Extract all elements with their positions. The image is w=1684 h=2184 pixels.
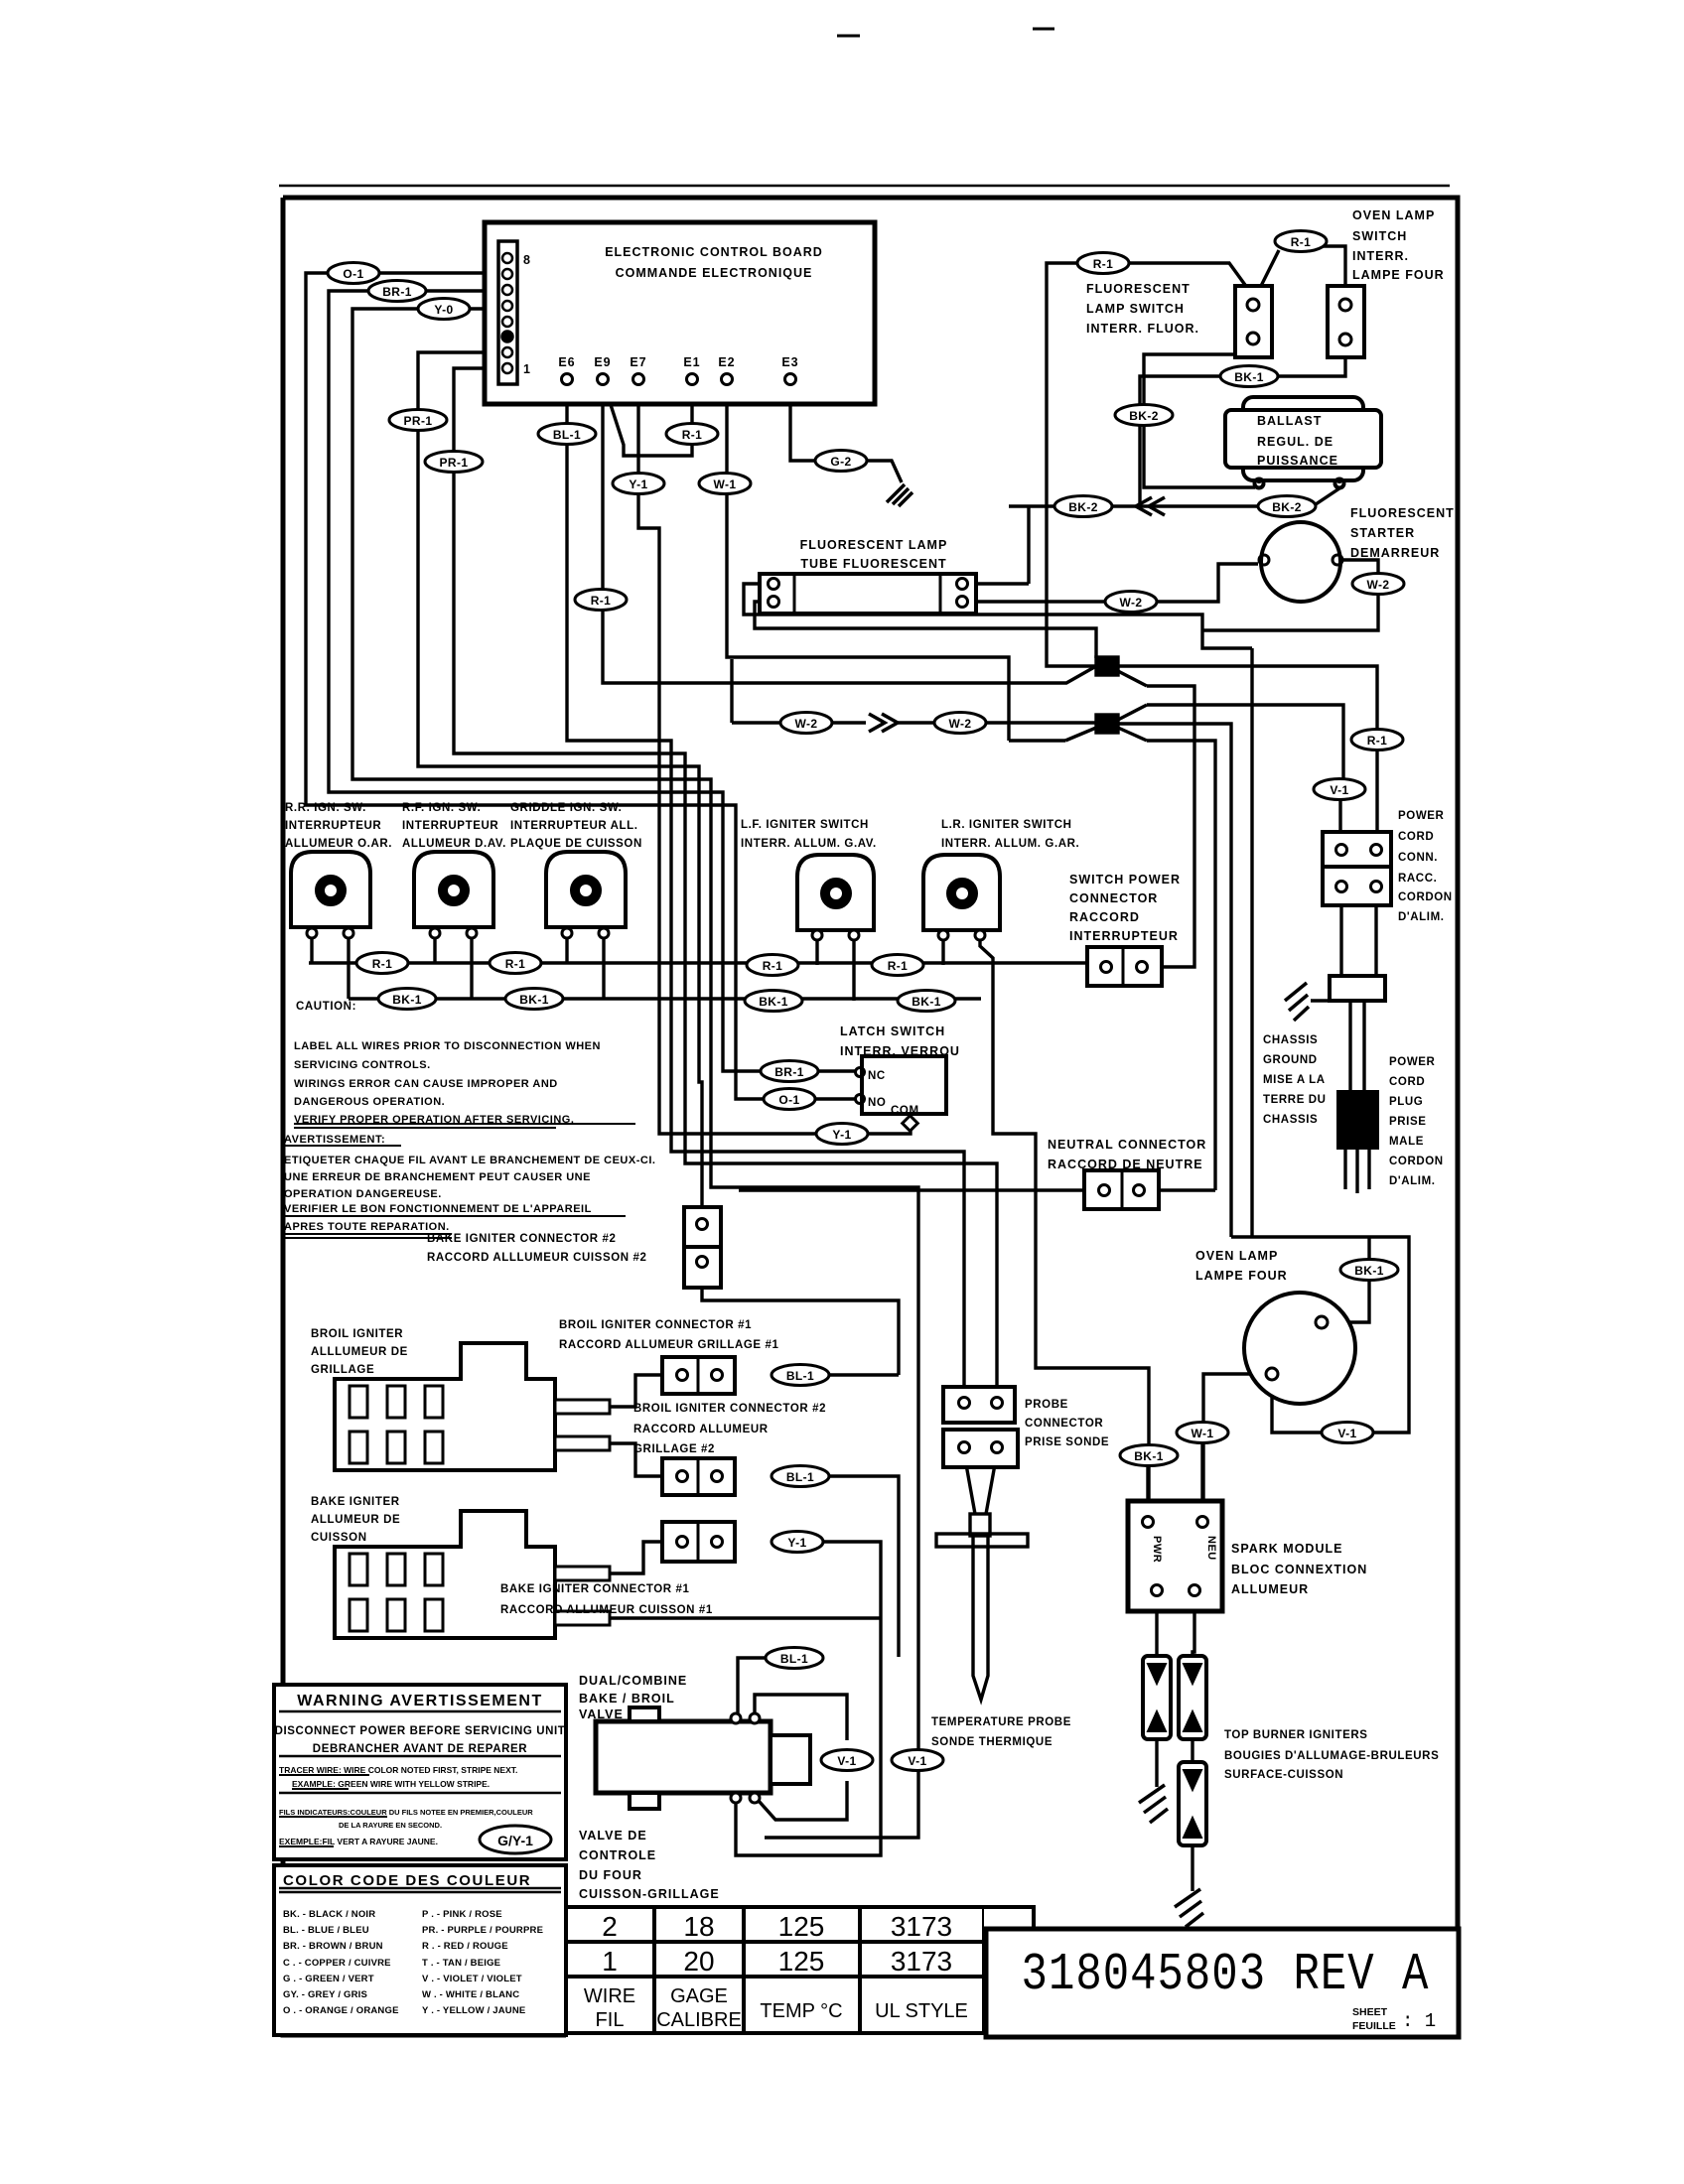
label R-1 top [1275,231,1327,252]
svg-text:BROIL IGNITER CONNECTOR #2: BROIL IGNITER CONNECTOR #2 [633,1403,826,1415]
svg-text:RACCORD DE NEUTRE: RACCORD DE NEUTRE [1048,1158,1203,1171]
svg-text:GAGE: GAGE [670,1985,728,2007]
probe plate [936,1534,1028,1547]
svg-text:PR-1: PR-1 [404,414,433,428]
fluorescent lamp switch [1235,286,1272,357]
svg-text:GRIDDLE IGN. SW.: GRIDDLE IGN. SW. [510,802,622,814]
label O-1 [328,263,379,284]
svg-text:R . - RED / ROUGE: R . - RED / ROUGE [422,1941,508,1952]
svg-text:R-1: R-1 [682,428,703,442]
svg-text:W-1: W-1 [1192,1427,1214,1440]
svg-text:GROUND: GROUND [1263,1054,1318,1066]
svg-text:PUISSANCE: PUISSANCE [1257,454,1338,468]
svg-text:Y-1: Y-1 [787,1536,806,1550]
svg-text:O . - ORANGE / ORANGE: O . - ORANGE / ORANGE [283,2005,399,2016]
svg-text:INTERRUPTEUR ALL.: INTERRUPTEUR ALL. [510,820,638,832]
underline marks in caution block [279,1124,635,1846]
latch COM diamond [903,1116,918,1132]
wire oven lamp loop top [1231,1237,1409,1433]
svg-text:L.R. IGNITER SWITCH: L.R. IGNITER SWITCH [941,819,1072,831]
svg-text:CONNECTOR: CONNECTOR [1025,1418,1103,1430]
svg-text:PLUG: PLUG [1389,1096,1423,1108]
label V-1 cord [1314,779,1365,800]
svg-text:DE LA RAYURE EN SECOND.: DE LA RAYURE EN SECOND. [339,1821,442,1830]
svg-text:DANGEROUS OPERATION.: DANGEROUS OPERATION. [294,1096,445,1108]
svg-text:Y . - YELLOW / JAUNE: Y . - YELLOW / JAUNE [422,2005,525,2016]
svg-text:LAMPE FOUR: LAMPE FOUR [1352,268,1445,282]
wire BR-1 to latch NC [815,1069,856,1072]
svg-text:VALVE: VALVE [579,1707,624,1721]
svg-text:DUAL/COMBINE: DUAL/COMBINE [579,1674,687,1688]
svg-text:FLUORESCENT: FLUORESCENT [1350,506,1455,520]
latch switch [862,1056,946,1114]
svg-text:ALLUMEUR D.AV.: ALLUMEUR D.AV. [402,838,506,850]
svg-text:MALE: MALE [1389,1136,1424,1148]
svg-text:SWITCH: SWITCH [1352,229,1407,243]
wire E7 Y-1 down to latch Y-1 oval row [638,384,816,1134]
wire fluor switch lower pin via BK-2 to ballast left pin [1144,343,1255,487]
label W-2 row a [780,713,832,734]
svg-text:E3: E3 [781,355,798,369]
svg-text:DEBRANCHER AVANT DE REPARER: DEBRANCHER AVANT DE REPARER [313,1743,527,1755]
connector strip pins [502,253,513,373]
warning box [274,1685,566,1859]
svg-text:TUBE FLUORESCENT: TUBE FLUORESCENT [800,557,946,571]
strain relief [1330,976,1385,1001]
svg-text:SWITCH POWER: SWITCH POWER [1069,873,1181,887]
svg-text:CHASSIS: CHASSIS [1263,1034,1318,1046]
svg-text:BALLAST: BALLAST [1257,414,1322,428]
svg-text:CAUTION:: CAUTION: [296,1001,356,1013]
label Y-1 latch [816,1124,868,1145]
label BK-1 row4 [898,991,955,1012]
svg-text:PRISE: PRISE [1389,1116,1427,1128]
svg-text:T . - TAN / BEIGE: T . - TAN / BEIGE [422,1958,500,1969]
svg-text:VALVE DE: VALVE DE [579,1829,647,1843]
igniter switch griddle [546,852,626,938]
label V-1 lamp [1322,1423,1373,1443]
bake igniter comb [335,1511,555,1638]
wire plug prongs [1345,1148,1369,1193]
svg-text:INTERR. FLUOR.: INTERR. FLUOR. [1086,322,1199,336]
wire R-1 igniter row [309,961,1087,964]
svg-text:WIRE: WIRE [584,1985,635,2007]
svg-text:R-1: R-1 [888,959,909,973]
svg-text:TRACER WIRE: WIRE COLOR NOTED: TRACER WIRE: WIRE COLOR NOTED FIRST, STR… [279,1765,517,1775]
wire ballast right pin via BK-2 row to tube riser [1009,488,1339,584]
svg-text:PRISE SONDE: PRISE SONDE [1025,1436,1109,1448]
svg-text:Y-1: Y-1 [832,1128,851,1142]
igniter switch R.R. [291,852,370,938]
ground G-2 symbol [887,484,912,506]
svg-text:BK-1: BK-1 [912,995,941,1009]
svg-text:125: 125 [778,1946,825,1977]
svg-text:BK-1: BK-1 [519,993,549,1007]
wire R-1 fluor switch feed up right [1047,263,1253,666]
label R-1 row2 [490,953,541,974]
svg-text:TERRE DU: TERRE DU [1263,1094,1327,1106]
svg-text:DU FOUR: DU FOUR [579,1868,642,1882]
svg-text:D'ALIM.: D'ALIM. [1389,1175,1436,1187]
svg-text:E1: E1 [683,355,700,369]
svg-text:RACCORD ALLUMEUR: RACCORD ALLUMEUR [633,1424,769,1435]
label W-2 tube [1105,592,1157,613]
svg-text:ALLLUMEUR DE: ALLLUMEUR DE [311,1346,408,1358]
svg-text:V-1: V-1 [1337,1427,1356,1440]
svg-text:E9: E9 [594,355,611,369]
svg-text:BR. - BROWN / BRUN: BR. - BROWN / BRUN [283,1941,383,1952]
color code box [274,1865,566,2035]
label BK-1 row2 [505,989,563,1010]
wire chassis ground link [1311,999,1330,1002]
wire Y-0 from control board pin down left bus to valve V-1 riser [352,309,918,1838]
wire spark module to igniters [1157,1595,1194,1656]
svg-text:BK-1: BK-1 [1134,1449,1164,1463]
svg-text:3173: 3173 [891,1946,952,1977]
svg-text:COMMANDE ELECTRONIQUE: COMMANDE ELECTRONIQUE [616,266,813,280]
svg-text:NEUTRAL CONNECTOR: NEUTRAL CONNECTOR [1048,1138,1206,1152]
svg-text:RACCORD ALLLUMEUR CUISSON #2: RACCORD ALLLUMEUR CUISSON #2 [427,1252,646,1264]
svg-text:BLOC CONNEXTION: BLOC CONNEXTION [1231,1563,1367,1576]
svg-text:8: 8 [523,253,531,267]
svg-text:PWR: PWR [1151,1536,1163,1563]
wire square2 NE branch to V-1 and power cord conn [1147,705,1343,845]
wire igniter B to C [1191,1739,1193,1762]
svg-text:ELECTRONIC CONTROL BOARD: ELECTRONIC CONTROL BOARD [605,245,823,259]
svg-text:BOUGIES D'ALLUMAGE-BRULEURS: BOUGIES D'ALLUMAGE-BRULEURS [1224,1750,1439,1762]
wire bake comb lower stub [610,1616,881,1619]
bottom table [566,1907,1034,2033]
svg-text:INTERR. ALLUM. G.AV.: INTERR. ALLUM. G.AV. [741,838,877,850]
svg-text:PLAQUE DE CUISSON: PLAQUE DE CUISSON [510,838,642,850]
svg-text:FLUORESCENT LAMP: FLUORESCENT LAMP [800,538,948,552]
junction square 2 [1096,715,1118,733]
svg-text:E7: E7 [630,355,646,369]
wire valve top loop [755,1695,847,1820]
arrows W-2 row [869,714,898,732]
label R-1 row4 [872,955,923,976]
wire E9 branch down through R-1 oval to junction square 1 [603,384,1096,683]
svg-text:FIL: FIL [596,2009,625,2031]
svg-text:18: 18 [683,1911,714,1942]
svg-text:INTERR. VERROU: INTERR. VERROU [840,1044,960,1058]
svg-text:R-1: R-1 [591,594,612,608]
svg-text:NC: NC [868,1070,886,1082]
svg-text:ALLUMEUR DE: ALLUMEUR DE [311,1514,400,1526]
svg-text:2: 2 [602,1911,618,1942]
wire W-2 row into square2 [732,721,1096,724]
bake igniter connector 2 [684,1207,721,1247]
wire BK-1 igniter row [349,997,981,1000]
wire O-1 to latch NO [815,1097,856,1100]
neutral connector [1084,1170,1159,1209]
label PR-1 b [425,452,483,473]
svg-text:OVEN LAMP: OVEN LAMP [1195,1249,1278,1263]
wire PR-1 first from connector pin down to bake igniter connector 2 [418,352,702,1207]
svg-text:SHEET: SHEET [1352,2006,1388,2018]
wire E9 diagonal to E1 node [604,383,692,456]
igniter switch L.F. [797,855,874,940]
wire square2 SE branch rail [1118,724,1231,1237]
pin E1 [687,374,698,385]
wire power cord conn to strain relief [1341,891,1376,976]
wire BL-1 broil conn1 [610,1375,899,1407]
svg-text:OPERATION DANGEREUSE.: OPERATION DANGEREUSE. [284,1188,442,1200]
wire E6 BL-1 down bus to probe connector [567,384,964,1393]
svg-text:R-1: R-1 [1367,734,1388,748]
border frame outer thin top line [279,185,1450,188]
svg-text:COLOR CODE DES COULEUR: COLOR CODE DES COULEUR [283,1872,531,1889]
svg-text:BAKE IGNITER CONNECTOR #1: BAKE IGNITER CONNECTOR #1 [500,1583,690,1595]
wire tube top-left loop to under-tube rail [744,584,1252,1237]
svg-text:RACCORD ALLUMEUR CUISSON #1: RACCORD ALLUMEUR CUISSON #1 [500,1604,713,1616]
ballast regulator [1225,397,1381,488]
svg-text:O-1: O-1 [778,1093,799,1107]
svg-text:V-1: V-1 [1330,783,1348,797]
bake igniter connector 1 [662,1522,735,1562]
svg-text:UNE ERREUR DE BRANCHEMENT PEUT: UNE ERREUR DE BRANCHEMENT PEUT CAUSER UN… [284,1171,591,1183]
svg-text:O-1: O-1 [343,267,363,281]
svg-text:CALIBRE: CALIBRE [656,2009,742,2031]
wire latch COM to Y-1 [868,1128,911,1134]
svg-text:BL-1: BL-1 [553,428,581,442]
svg-text:SERVICING CONTROLS.: SERVICING CONTROLS. [294,1059,431,1071]
ground symbol igniter A [1139,1785,1168,1823]
top burner igniter C [1179,1762,1206,1845]
label Y-1 bake [772,1532,823,1553]
svg-text:EXAMPLE: GREEN WIRE WITH YELLO: EXAMPLE: GREEN WIRE WITH YELLOW STRIPE. [292,1779,490,1789]
wire oven lamp BK-1 drop [1328,1237,1369,1322]
table text [602,1911,952,1977]
broil igniter comb [335,1343,555,1470]
label R-1 row3 [747,955,798,976]
svg-text:20: 20 [683,1946,714,1977]
wire BK-2 left riser long run to spark BK-1 riser [980,940,1149,1517]
wire square1 right to R-1 and power cord conn [1118,666,1377,845]
wire valve BL-1 left [738,1658,769,1713]
svg-text:W-2: W-2 [949,717,972,731]
electronic control board [485,222,875,404]
label BK-1 sw [1220,366,1278,387]
bake comb lead stubs [555,1567,610,1580]
svg-text:REGUL. DE: REGUL. DE [1257,435,1333,449]
label W-1 e2 [699,474,751,494]
svg-text:ALLUMEUR: ALLUMEUR [1231,1582,1309,1596]
wire bake conn2 lower to BL-1 chain [702,1242,899,1375]
svg-text:P . - PINK / ROSE: P . - PINK / ROSE [422,1909,502,1920]
svg-text:BK-2: BK-2 [1129,409,1159,423]
wire square1 SW feed from E9 rail [1009,739,1065,742]
oven lamp switch [1328,286,1364,357]
svg-text:R-1: R-1 [763,959,783,973]
top burner igniter A [1143,1656,1171,1739]
switch power connector [1087,947,1162,986]
junction square 1 [1096,657,1118,675]
pin E3 [785,374,796,385]
svg-text:R.F. IGN. SW.: R.F. IGN. SW. [402,802,481,814]
svg-text:125: 125 [778,1911,825,1942]
label G/Y-1 example [480,1826,551,1853]
svg-text:INTERR.: INTERR. [1352,249,1409,263]
wire neutral connector feed [739,1188,1215,1191]
svg-text:R-1: R-1 [1093,257,1114,271]
wire igniter switch left terminals to R-1 row [312,938,943,965]
svg-text:FEUILLE: FEUILLE [1352,2020,1396,2032]
junction square 2 diagonals [1065,705,1147,741]
svg-text:DISCONNECT POWER BEFORE SERVIC: DISCONNECT POWER BEFORE SERVICING UNIT [275,1725,566,1737]
label BL-1 broil1 [772,1365,829,1386]
pin E6 [562,374,573,385]
fluorescent starter [1261,522,1340,602]
label PR-1 [389,410,447,431]
svg-text:GRILLAGE: GRILLAGE [311,1364,374,1376]
svg-text:MISE A LA: MISE A LA [1263,1074,1326,1086]
wire igniter switch right terminals to BK-1 row [349,938,854,1001]
svg-text:BK-2: BK-2 [1068,500,1098,514]
svg-text:VERIFIER LE BON FONCTIONNEMENT: VERIFIER LE BON FONCTIONNEMENT DE L'APPA… [284,1203,592,1215]
svg-text:FILS INDICATEURS:COULEUR DU FI: FILS INDICATEURS:COULEUR DU FILS NOTEE E… [279,1808,533,1817]
wire ballast pins stubs [1259,479,1339,483]
wire igniter C to ground [1191,1845,1193,1891]
valve top tab [630,1707,659,1721]
wire starter right pin through W-2 down to rail [1202,560,1378,630]
svg-text:CONTROLE: CONTROLE [579,1848,656,1862]
svg-text:INTERRUPTEUR: INTERRUPTEUR [402,820,498,832]
svg-text:DEMARREUR: DEMARREUR [1350,546,1440,560]
wire oven lamp switch lower pin to BK-1 and long riser to spark module PWR [1140,344,1345,506]
border frame [283,198,1458,2037]
label R-1 e1 [666,424,718,445]
svg-text:BAKE IGNITER: BAKE IGNITER [311,1496,400,1508]
junction square 1 diagonals [1118,671,1147,686]
svg-text:W-2: W-2 [1367,578,1390,592]
power cord plug [1338,1092,1377,1148]
wire square1 SE branch down to switch power connector [1147,686,1194,967]
wire temperature probe shaft [973,1536,988,1700]
svg-text:BL. - BLUE / BLEU: BL. - BLUE / BLEU [283,1925,369,1936]
label R-1 cord [1351,730,1403,751]
svg-text:BR-1: BR-1 [774,1065,804,1079]
probe connector upper [943,1387,1015,1423]
top burner igniter B [1179,1656,1206,1739]
svg-text:LATCH SWITCH: LATCH SWITCH [840,1024,945,1038]
svg-text:SONDE THERMIQUE: SONDE THERMIQUE [931,1736,1052,1748]
label Y-1 e7 [613,474,664,494]
pin E9 [598,374,609,385]
svg-text:W . - WHITE / BLANC: W . - WHITE / BLANC [422,1989,519,2000]
svg-text:PROBE: PROBE [1025,1399,1068,1411]
svg-text:BK-1: BK-1 [1234,370,1264,384]
svg-text:CONN.: CONN. [1398,852,1438,864]
svg-text:E2: E2 [718,355,735,369]
wire probe connector lower circles to probe [964,1453,997,1514]
wire E2 W-1 down and right to square2 riser [727,384,1009,741]
label R-1 fluor [1077,253,1129,274]
svg-text:L.F. IGNITER SWITCH: L.F. IGNITER SWITCH [741,819,869,831]
svg-text:TEMPERATURE PROBE: TEMPERATURE PROBE [931,1716,1071,1728]
svg-text:INTERRUPTEUR: INTERRUPTEUR [285,820,381,832]
svg-text:CORD: CORD [1389,1076,1425,1088]
label BL-1 valve [766,1648,823,1669]
svg-text:BL-1: BL-1 [786,1470,814,1484]
wire strain relief to plug [1350,1001,1364,1092]
wire BR-1 from control board pin down left bus to latch NC oval [329,291,764,1071]
spark module [1128,1501,1222,1611]
svg-text:GY. - GREY / GRIS: GY. - GREY / GRIS [283,1989,367,2000]
wire tube bottom-right through W-2 to starter left pin [967,564,1258,602]
control board connector strip [498,241,517,384]
svg-text:BL-1: BL-1 [780,1652,808,1666]
svg-text:BROIL IGNITER CONNECTOR #1: BROIL IGNITER CONNECTOR #1 [559,1319,752,1331]
svg-text:SPARK MODULE: SPARK MODULE [1231,1542,1342,1556]
svg-text:V-1: V-1 [837,1754,856,1768]
wire R-1 oven lamp switch link [1256,246,1345,300]
svg-text:Y-1: Y-1 [629,478,647,491]
broil igniter connector 2 [662,1458,735,1495]
label R-1 e9 [575,590,627,611]
label W-2 starter [1352,574,1404,595]
svg-text:NO: NO [868,1097,886,1109]
svg-text:PR. - PURPLE / POURPRE: PR. - PURPLE / POURPRE [422,1925,543,1936]
power cord connector [1323,832,1391,867]
svg-text:W-2: W-2 [795,717,818,731]
svg-text:GRILLAGE #2: GRILLAGE #2 [633,1443,715,1455]
label BK-1 row3 [745,991,802,1012]
title block [986,1929,1459,2037]
label R-1 row1 [356,953,408,974]
svg-text:INTERRUPTEUR: INTERRUPTEUR [1069,929,1179,943]
svg-text:BR-1: BR-1 [382,285,412,299]
svg-text:G-2: G-2 [830,455,851,469]
title block text [1022,1946,1430,2005]
label BK-2 a [1115,405,1173,426]
svg-text:BK-1: BK-1 [759,995,788,1009]
svg-text:RACC.: RACC. [1398,873,1437,885]
svg-text:1: 1 [602,1946,618,1977]
svg-text:D'ALIM.: D'ALIM. [1398,911,1445,923]
pin E2 [722,374,733,385]
svg-text:BK-1: BK-1 [392,993,422,1007]
svg-text:LAMP SWITCH: LAMP SWITCH [1086,302,1185,316]
svg-text:FLUORESCENT: FLUORESCENT [1086,282,1191,296]
label BK-1 lamp [1340,1260,1398,1281]
ground symbol igniter C [1175,1889,1203,1927]
broil comb lead stubs [555,1400,610,1414]
wire labels: ovals with codes [328,231,1404,1854]
label G-2 [815,451,867,472]
label Y-0 [418,299,470,320]
svg-text:Y-0: Y-0 [434,303,453,317]
svg-text:POWER: POWER [1398,810,1445,822]
label BR-1 [368,281,426,302]
label O-1 latch [764,1089,815,1110]
svg-text:WARNING AVERTISSEMENT: WARNING AVERTISSEMENT [297,1693,543,1709]
svg-text:BK. - BLACK / NOIR: BK. - BLACK / NOIR [283,1909,375,1920]
wire O-1 from control board pin to left bus, down and across to latch NO oval [306,273,764,1099]
igniter switch R.F. [414,852,493,938]
svg-text:OVEN LAMP: OVEN LAMP [1352,208,1435,222]
svg-text:R-1: R-1 [505,957,526,971]
svg-text:CUISSON-GRILLAGE: CUISSON-GRILLAGE [579,1887,720,1901]
label BK-1 row1 [378,989,436,1010]
svg-text:COM: COM [891,1105,919,1117]
svg-text:POWER: POWER [1389,1056,1436,1068]
valve terminals [731,1713,741,1723]
igniter switch L.R. [923,855,1000,940]
wire spark module tops [1148,1437,1202,1517]
svg-text:E6: E6 [558,355,575,369]
label V-1 valve a [821,1750,873,1771]
